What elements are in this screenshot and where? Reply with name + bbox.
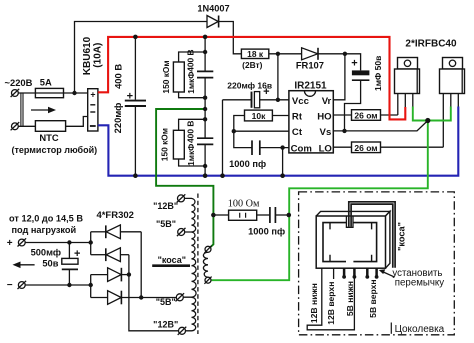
wire node X1 to 12V bottom tap <box>129 255 179 331</box>
resistor R2 150kOhm <box>173 119 205 166</box>
wire Vs to half-bridge node <box>333 121 428 131</box>
svg-text:18 к: 18 к <box>247 49 264 59</box>
svg-text:5В верхн: 5В верхн <box>368 279 378 317</box>
capacitor C1 220mf 400V bulk <box>125 37 146 176</box>
transformer primary winding <box>203 252 208 277</box>
op-amp U1 IR2151 <box>289 91 333 153</box>
wire R6 to Q2 gate <box>381 146 444 148</box>
wire plus rail <box>25 242 91 244</box>
svg-text:LO: LO <box>319 143 333 154</box>
bobbin inner right bracket <box>353 223 376 262</box>
pin 4 5V nizhn second <box>353 268 357 279</box>
cable double line <box>21 93 23 126</box>
svg-text:220мф: 220мф <box>112 103 123 134</box>
svg-text:"коса": "коса" <box>158 255 186 265</box>
svg-text:26 ом: 26 ом <box>354 111 377 121</box>
resistor R5 26 om (HO) <box>352 110 381 121</box>
pin 1 12V nizhn with jumper <box>307 268 354 330</box>
wire LO to gate resistor <box>333 146 351 148</box>
svg-text:HO: HO <box>317 111 332 122</box>
pinout inset box Tsokolevka <box>299 192 455 335</box>
thermistor NTC <box>35 121 65 132</box>
svg-text:1000 пф: 1000 пф <box>248 227 285 237</box>
capacitor C2 1mkF 400V (upper) <box>197 71 213 77</box>
svg-text:Com: Com <box>291 143 312 154</box>
svg-text:Vcc: Vcc <box>292 96 310 107</box>
wire R5 to Q1 gate <box>381 114 398 116</box>
transformer secondary winding <box>185 198 196 232</box>
svg-text:50в: 50в <box>42 258 58 268</box>
svg-text:12В верхн: 12В верхн <box>326 282 336 325</box>
wire Vr to bootstrap node <box>333 54 345 100</box>
terminal primary bottom <box>204 277 211 284</box>
node kosa braid wire <box>349 202 395 268</box>
capacitor C8 500mf 50v <box>62 243 81 286</box>
svg-text:"коса": "коса" <box>396 222 406 251</box>
wire N terminal to NTC <box>18 125 35 127</box>
diode FR107 <box>302 48 318 60</box>
wire node X2 to 5V bottom tap <box>141 232 176 298</box>
svg-text:400 В: 400 В <box>186 49 196 71</box>
svg-text:FR107: FR107 <box>296 60 324 71</box>
pin 6 5V verkhn second <box>375 268 379 279</box>
svg-text:(10А): (10А) <box>92 43 103 68</box>
bobbin center slot <box>346 216 353 227</box>
wire divider midpoint to primary top (dark green) <box>156 109 213 247</box>
svg-text:−: − <box>7 280 13 291</box>
svg-text:5А: 5А <box>40 76 52 87</box>
capacitor C3 1mkF 400V (lower) <box>197 138 213 144</box>
bobbin right face <box>386 211 390 268</box>
resistor R7 100 Om snubber <box>213 210 269 220</box>
wire HO to gate resistor <box>333 114 351 116</box>
resistor R4 10k <box>234 110 289 131</box>
wire C4 to 0V rail <box>222 100 224 176</box>
svg-text:1мкФ: 1мкФ <box>186 72 196 94</box>
wire FR107 cathode to bootstrap node <box>318 53 345 55</box>
svg-text:+: + <box>127 91 133 103</box>
wire 0V blue bus <box>98 107 458 176</box>
svg-text:100 Ом: 100 Ом <box>228 198 260 209</box>
wire node to primary bottom (green) <box>212 121 428 281</box>
svg-text:Rt: Rt <box>292 111 303 122</box>
svg-text:12В нижн: 12В нижн <box>309 283 319 323</box>
pin 3 5V nizhn <box>342 268 346 279</box>
svg-text:400 В: 400 В <box>113 64 124 89</box>
terminal tap 5V top <box>177 228 186 236</box>
svg-text:(2Вт): (2Вт) <box>242 60 262 70</box>
wire mains top rail to 1N4007 <box>75 22 208 94</box>
svg-text:5В нижн: 5В нижн <box>345 281 355 316</box>
wire D3-D4 join <box>90 275 92 298</box>
svg-text:2*IRFBC40: 2*IRFBC40 <box>405 39 457 50</box>
svg-text:4*FR302: 4*FR302 <box>96 210 134 221</box>
diode D2 FR302 <box>91 248 129 262</box>
label Tsokolevka <box>391 323 444 335</box>
svg-text:500мф: 500мф <box>31 248 61 258</box>
svg-text:"5В": "5В" <box>156 297 176 307</box>
wire +310V red bus <box>98 37 405 120</box>
diode D4 FR302 <box>91 291 142 305</box>
arrow to jumper pin <box>379 269 394 277</box>
bobbin top face <box>316 211 390 216</box>
bridge rectifier KBU610 <box>88 89 98 131</box>
node kosa braid tap <box>152 264 190 267</box>
terminal tap 12V top <box>177 194 186 202</box>
terminal tap 5V bottom <box>176 293 185 301</box>
svg-text:"12В": "12В" <box>153 201 178 211</box>
svg-text:Vs: Vs <box>320 127 332 138</box>
capacitor C6 1mf 50v bootstrap <box>345 54 370 131</box>
svg-text:"5В": "5В" <box>156 219 176 229</box>
transistor Q2 IRFBC40 <box>440 58 465 148</box>
svg-text:Цоколевка: Цоколевка <box>395 324 445 335</box>
wire 1N4007 cathode down to 18k <box>219 22 242 54</box>
divider chain vertical wire <box>204 37 206 176</box>
svg-text:NTC: NTC <box>39 132 58 143</box>
svg-text:~220В: ~220В <box>5 77 33 88</box>
svg-text:+: + <box>90 90 95 100</box>
capacitor C5 1000pf (Ct) <box>234 131 289 155</box>
fuse F1 5A <box>35 88 63 97</box>
pin 5 5V verkhn <box>365 268 369 279</box>
svg-text:(термистор любой): (термистор любой) <box>11 145 97 155</box>
svg-text:150 кОм: 150 кОм <box>160 128 170 161</box>
svg-text:400 В: 400 В <box>186 121 196 143</box>
terminal primary top <box>204 246 211 253</box>
wire Q1 source to node (green) <box>413 107 428 121</box>
capacitor C4 220mf 16v <box>223 86 270 108</box>
wire L terminal to fuse to bridge <box>18 92 87 94</box>
wire NTC to bridge <box>66 117 88 127</box>
pin 2 12V verkhn <box>333 268 335 279</box>
junction dots <box>72 91 76 95</box>
svg-text:26 ом: 26 ом <box>354 143 377 153</box>
terminal input L <box>11 89 20 97</box>
svg-text:+: + <box>74 248 80 260</box>
svg-text:+: + <box>351 58 357 70</box>
diode D3 FR302 <box>91 268 129 282</box>
svg-text:от 12,0 до 14,5 В: от 12,0 до 14,5 В <box>9 214 83 224</box>
diode 1N4007 <box>207 16 219 28</box>
resistor R1 150kOhm <box>173 52 205 98</box>
svg-text:Vr: Vr <box>322 96 332 107</box>
diode D1 FR302 <box>91 225 142 239</box>
svg-text:+: + <box>7 238 13 249</box>
capacitor C7 1000pf snubber <box>270 207 289 223</box>
svg-text:150 кОм: 150 кОм <box>161 60 171 93</box>
wire Vcc feed vertical <box>277 54 279 100</box>
terminal input N <box>11 122 20 130</box>
svg-text:перемычку: перемычку <box>395 278 444 289</box>
wire node to Q2 drain (green) <box>428 107 451 121</box>
svg-text:1мкФ: 1мкФ <box>186 144 196 166</box>
terminal tap 12V bottom <box>178 327 187 335</box>
svg-text:"12В": "12В" <box>153 320 178 330</box>
resistor R6 26 om (LO) <box>352 142 381 153</box>
svg-text:1000 пф: 1000 пф <box>229 159 266 169</box>
arrow output direction <box>13 262 35 269</box>
arrow current direction <box>31 107 56 114</box>
terminal output minus <box>18 281 27 289</box>
svg-text:10к: 10к <box>252 111 266 121</box>
bobbin inner left bracket <box>323 223 346 262</box>
svg-text:под нагрузкой: под нагрузкой <box>11 225 76 235</box>
svg-text:1мФ 50в: 1мФ 50в <box>373 56 383 91</box>
wire D1-D2 anode-cathode join <box>90 232 92 255</box>
bobbin front face <box>316 216 385 268</box>
wire 18k to FR107 <box>269 53 302 55</box>
svg-text:220мф 16в: 220мф 16в <box>227 81 272 91</box>
wire Vcc line <box>260 99 289 101</box>
transistor Q1 IRFBC40 <box>395 58 420 116</box>
transformer T1 core <box>197 194 199 335</box>
resistor R3 18k <box>241 49 268 59</box>
wire Com to 0V rail <box>282 148 284 176</box>
wire minus rail <box>25 284 91 286</box>
wire Ct line <box>234 130 289 132</box>
terminal output plus <box>18 238 27 246</box>
svg-text:1N4007: 1N4007 <box>197 3 229 13</box>
svg-text:Ct: Ct <box>292 127 303 138</box>
svg-text:IR2151: IR2151 <box>294 81 327 92</box>
